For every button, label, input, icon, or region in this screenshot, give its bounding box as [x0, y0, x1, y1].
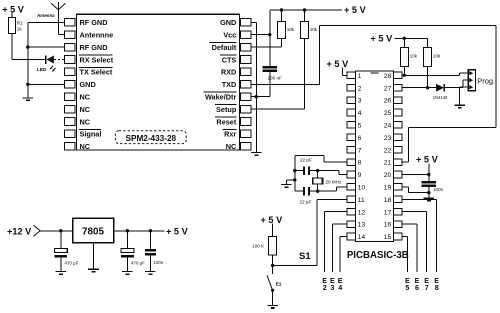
wire C3 leads	[295, 190, 318, 192]
module pin box right 8 (Setup)	[241, 105, 251, 113]
wire crystal vertical	[317, 171, 319, 192]
node E3	[330, 276, 335, 292]
module pin box left 4 (RX Select)	[65, 56, 75, 64]
regulator U3 7805	[73, 218, 114, 243]
svg-text:22: 22	[384, 147, 392, 154]
svg-text:7805: 7805	[82, 226, 104, 237]
U1 pin box right 25	[393, 109, 402, 116]
wire gnd node down	[428, 193, 430, 198]
wire RF GND pin1 to gnd bus	[28, 21, 65, 23]
U1 pin box right 22	[393, 146, 402, 153]
node E4	[338, 276, 343, 292]
svg-text:100 K: 100 K	[252, 244, 265, 249]
pin label Rxr	[223, 129, 237, 138]
wire R5 to S1 node	[272, 255, 274, 265]
wire +5V rail (module)	[270, 9, 342, 11]
wire C2 leads	[295, 170, 318, 172]
svg-text:CTS: CTS	[222, 55, 237, 64]
wire +5V to R5	[272, 224, 274, 237]
svg-text:22 pF: 22 pF	[300, 200, 312, 205]
svg-text:+ 5 V: + 5 V	[344, 5, 367, 15]
svg-text:7: 7	[358, 147, 362, 154]
wire gnd bus to PIC pin 8	[295, 155, 347, 162]
wire PIC pin 13 to E3	[332, 224, 346, 272]
wire rail to C7	[149, 231, 151, 249]
svg-text:10k: 10k	[410, 54, 418, 59]
pin label TX Select	[79, 67, 113, 76]
wire prog pin 3 to ground	[460, 87, 469, 105]
ground (C6)	[122, 272, 133, 275]
wire pin 28 to prog pin 1	[402, 73, 468, 75]
wire RF GND pin3 to gnd bus	[28, 46, 65, 48]
module U2 SPM2-433-28 body	[76, 14, 239, 150]
resistor R7 10k	[424, 47, 432, 66]
wire antenna to Antennne pin	[58, 34, 64, 36]
pin label NC	[80, 142, 91, 151]
svg-text:5: 5	[358, 123, 362, 130]
node E5	[405, 276, 410, 292]
svg-text:1k: 1k	[17, 27, 23, 32]
wire C7 to ground	[149, 256, 151, 272]
svg-text:1: 1	[358, 73, 362, 80]
wire cap bottom to gnd line	[251, 72, 270, 97]
U1 pin box right 17	[393, 208, 402, 215]
wire Vdd to C4	[428, 175, 430, 182]
capacitor C6 470uF electrolytic	[121, 249, 134, 258]
pin label Reset	[215, 117, 237, 126]
wire diode to prog pin 2	[444, 80, 468, 88]
svg-text:17: 17	[384, 209, 392, 216]
pin label RXD	[221, 68, 236, 77]
ground (S1)	[267, 306, 278, 309]
svg-text:28: 28	[384, 73, 392, 80]
U1 pin box left 14	[347, 233, 356, 240]
svg-text:NC: NC	[80, 142, 91, 151]
IC U1 PICBASIC-3B body	[356, 71, 394, 242]
wire R6 to pin 28 net	[403, 66, 405, 75]
junction C3 right / crystal	[316, 190, 319, 193]
resistor R2	[9, 18, 16, 34]
svg-text:+12 V: +12 V	[7, 227, 32, 237]
module pin box left 2 (Antennne)	[65, 31, 75, 39]
junction pin 27 net	[426, 86, 429, 89]
module pin box left 11 (NC)	[65, 143, 75, 151]
resistor R3 10k	[278, 22, 286, 39]
svg-text:10: 10	[358, 185, 366, 192]
svg-text:+ 5 V: + 5 V	[371, 34, 394, 44]
LED	[45, 55, 56, 71]
svg-text:16: 16	[384, 222, 392, 229]
module pin box left 8 (NC)	[65, 105, 75, 113]
node E2	[322, 276, 327, 292]
svg-text:7: 7	[425, 283, 429, 292]
module pin box right 1 (GND)	[241, 19, 251, 27]
svg-text:E1: E1	[276, 281, 282, 287]
pin label GND	[80, 80, 96, 89]
svg-text:LED: LED	[37, 67, 47, 73]
U1 pin box left 7	[347, 146, 356, 153]
junction rail R3	[280, 8, 283, 11]
connector pin contacts	[469, 71, 473, 89]
svg-text:6: 6	[358, 135, 362, 142]
svg-text:11: 11	[358, 197, 365, 204]
connector J1 Prog body	[468, 70, 475, 91]
pin label Wake/Dtr	[204, 92, 237, 101]
module pin box left 6 (GND)	[65, 81, 75, 89]
pin label RF GND	[80, 18, 108, 27]
module pin box right 3 (Default)	[241, 43, 251, 51]
svg-text:5: 5	[405, 283, 409, 292]
wire +5V rail drop / cap top lead	[269, 10, 271, 66]
ground (RF section)	[23, 98, 34, 101]
ground (prog)	[454, 105, 465, 108]
module pin box right 10 (Rxr)	[241, 130, 251, 138]
svg-text:NC: NC	[80, 117, 91, 126]
resistor R4 10k	[301, 22, 309, 39]
module pin box right 11 (NC)	[241, 143, 251, 151]
pin label Signal	[79, 129, 101, 138]
pin label GND	[220, 18, 236, 27]
wire R4 to Setup pin	[251, 39, 305, 110]
module pin box right 2 (Vcc)	[241, 31, 251, 39]
svg-text:10k: 10k	[310, 27, 318, 32]
wire +12V to 7805	[40, 230, 72, 232]
svg-text:20: 20	[384, 172, 392, 179]
module pin box left 10 (Signal)	[65, 130, 75, 138]
wire crystal gnd bus	[294, 155, 296, 191]
svg-text:19: 19	[384, 185, 392, 192]
ground (C7)	[145, 272, 156, 275]
U1 pin box right 27	[393, 84, 402, 91]
junction Vcc	[268, 33, 271, 36]
svg-text:26: 26	[384, 98, 392, 105]
U1 pin box left 2	[347, 84, 356, 91]
svg-text:10k: 10k	[287, 27, 295, 32]
wire GND pin to gnd line	[251, 21, 256, 23]
junction Vdd	[427, 173, 430, 176]
svg-text:Signal: Signal	[80, 130, 102, 139]
ground (PIC Vss)	[424, 198, 435, 201]
pin label NC	[226, 142, 237, 151]
svg-text:GND: GND	[220, 18, 236, 27]
svg-text:8: 8	[435, 283, 439, 292]
svg-text:Wake/Dtr: Wake/Dtr	[205, 93, 237, 102]
wire C4 to gnd node	[428, 187, 430, 193]
wire rail to C6	[126, 231, 128, 249]
capacitor C4 100n	[422, 181, 436, 187]
module pin box left 9 (NC)	[65, 118, 75, 126]
pin label CTS	[220, 55, 237, 64]
wire gnd line vertical	[255, 22, 257, 152]
module pin box right 7 (Wake/Dtr)	[241, 93, 251, 101]
svg-text:TXD: TXD	[222, 80, 237, 89]
junction rail R4	[303, 8, 306, 11]
wire 7805 gnd pin	[93, 242, 95, 269]
ground (7805)	[88, 269, 99, 272]
svg-text:RX Select: RX Select	[80, 55, 114, 64]
svg-text:Antennne: Antennne	[80, 31, 114, 40]
module pin box right 4 (CTS)	[241, 56, 251, 64]
node E7	[424, 276, 429, 292]
wire crystal to PIC pin 9	[318, 171, 347, 175]
wire 7805 output rail	[114, 230, 164, 232]
svg-text:NC: NC	[226, 142, 237, 151]
resistor R5 100K	[269, 236, 277, 255]
wire +5V rail (prog)	[395, 37, 428, 39]
U1 pin box right 23	[393, 134, 402, 141]
wire TXD loop to PIC pin 21	[251, 26, 496, 163]
pin label Default	[210, 43, 237, 52]
junction gnd node	[427, 191, 430, 194]
wire S1 node to PIC pin 11	[273, 199, 347, 265]
svg-text:15: 15	[384, 234, 392, 241]
svg-text:21: 21	[384, 160, 392, 167]
svg-text:1N4148: 1N4148	[433, 95, 448, 100]
wire PIC pin 18 to E8	[402, 199, 437, 271]
capacitor C5 470uF electrolytic	[54, 249, 67, 258]
svg-text:2: 2	[358, 85, 362, 92]
svg-text:20 MHz: 20 MHz	[326, 179, 343, 184]
svg-text:9: 9	[358, 172, 362, 179]
junction C2 left	[293, 169, 296, 172]
node E6	[415, 276, 420, 292]
svg-text:3: 3	[358, 98, 362, 105]
wire R2 to LED node	[12, 34, 45, 60]
svg-text:RF GND: RF GND	[80, 18, 108, 27]
svg-text:S1: S1	[299, 251, 311, 262]
capacitor C3 22pF bottom	[303, 187, 310, 196]
svg-text:+ 5 V: + 5 V	[2, 4, 25, 14]
svg-text:27: 27	[384, 85, 392, 92]
svg-text:100n: 100n	[153, 260, 163, 265]
wire R7 to pin 27 net	[427, 66, 429, 87]
pin label Vcc	[223, 31, 236, 40]
svg-text:24: 24	[384, 123, 392, 130]
U1 pin box left 8	[347, 159, 356, 166]
wire PIC pin 14 to E4	[340, 237, 347, 272]
pin label Antennne	[80, 31, 114, 40]
svg-text:SPM2-433-28: SPM2-433-28	[126, 134, 177, 143]
wire pin 19 to gnd node	[402, 187, 429, 193]
U1 pin box left 3	[347, 97, 356, 104]
U1 pin box right 15	[393, 233, 402, 240]
svg-text:3: 3	[330, 283, 334, 292]
value label R2 1k	[17, 21, 23, 32]
svg-text:RF GND: RF GND	[80, 43, 108, 52]
capacitor C1 100nF	[263, 66, 277, 72]
svg-text:13: 13	[358, 222, 366, 229]
capacitor C7 100n	[145, 249, 156, 256]
U1 pin box left 5	[347, 122, 356, 129]
svg-text:18: 18	[384, 197, 392, 204]
U1 pin box left 11	[347, 196, 356, 203]
svg-text:6: 6	[415, 283, 419, 292]
module pin box right 5 (RXD)	[241, 68, 251, 76]
wire PIC pin 12 to E2	[325, 212, 347, 272]
svg-text:PICBASIC-3B: PICBASIC-3B	[347, 250, 409, 261]
wire crystal to PIC pin 10	[318, 187, 347, 191]
junction cap/gnd	[255, 95, 258, 98]
svg-text:470 µF: 470 µF	[131, 260, 145, 265]
wire rail to R6	[403, 38, 405, 47]
crystal X1 20MHz	[312, 178, 322, 184]
pin label RX Select	[79, 55, 114, 64]
svg-text:10k: 10k	[433, 54, 441, 59]
svg-text:2: 2	[323, 283, 327, 292]
U1 pin box left 1	[347, 72, 356, 79]
junction GND	[26, 83, 29, 86]
ground (crystal)	[281, 185, 292, 188]
pin label NC	[80, 117, 91, 126]
svg-text:Rxr: Rxr	[224, 130, 236, 139]
wire pin 20 to +5V	[402, 163, 429, 174]
module pin box left 7 (NC)	[65, 93, 75, 101]
svg-text:RXD: RXD	[221, 68, 236, 77]
U1 pin box right 18	[393, 196, 402, 203]
pin label NC	[80, 93, 91, 102]
svg-text:4: 4	[358, 110, 362, 117]
wire Vcc pin to +5V drop	[251, 34, 270, 36]
junction C6	[126, 229, 129, 232]
U1 pin box right 19	[393, 184, 402, 191]
wire C5 to ground	[60, 258, 62, 272]
wire S1 to ground	[272, 290, 274, 305]
switch S1	[267, 265, 274, 292]
svg-text:4: 4	[338, 283, 342, 292]
svg-text:Vcc: Vcc	[223, 31, 236, 40]
module pin box right 9 (Reset)	[241, 118, 251, 126]
U1 pin box left 13	[347, 221, 356, 228]
junction C2 right / crystal	[316, 169, 319, 172]
svg-text:8: 8	[358, 160, 362, 167]
junction C7	[149, 229, 152, 232]
svg-text:GND: GND	[80, 80, 96, 89]
svg-text:23: 23	[384, 135, 392, 142]
svg-text:Reset: Reset	[216, 117, 236, 126]
wire rail to C5	[60, 231, 62, 249]
U1 pin box right 20	[393, 171, 402, 178]
U1 pin box left 12	[347, 208, 356, 215]
module pin box right 6 (TXD)	[241, 81, 251, 89]
U1 pin box left 4	[347, 109, 356, 116]
wire rail to R4	[304, 10, 306, 22]
U1 pin box right 26	[393, 97, 402, 104]
svg-text:Prog.: Prog.	[477, 77, 495, 86]
wire GND pin6 to gnd bus	[28, 83, 65, 85]
wire +5V to pin 1	[343, 68, 347, 76]
svg-text:NC: NC	[80, 105, 91, 114]
svg-text:25: 25	[384, 110, 392, 117]
module pin box left 3 (RF GND)	[65, 43, 75, 51]
ground (module GND)	[251, 153, 262, 156]
junction RF GND	[26, 45, 29, 48]
capacitor C2 22pF top	[303, 166, 310, 175]
svg-text:12: 12	[358, 209, 366, 216]
wire PIC pin 15 to E5	[402, 237, 407, 272]
antenna	[51, 2, 65, 35]
svg-text:+ 5 V: + 5 V	[166, 227, 189, 237]
junction S1 node	[271, 264, 274, 267]
wire gnd bus vertical	[27, 22, 29, 97]
U1 pin box right 28	[393, 72, 402, 79]
U1 pin box left 6	[347, 134, 356, 141]
pin label TXD	[222, 80, 237, 89]
diode D1 1N4148	[436, 84, 444, 92]
junction rail R6	[403, 37, 406, 40]
U1 pin box right 21	[393, 159, 402, 166]
resistor R6 10k	[400, 47, 408, 66]
wire gnd stub	[286, 180, 295, 184]
wire +5V to R2	[11, 13, 13, 18]
svg-text:+ 5 V: + 5 V	[261, 215, 284, 225]
svg-text:14: 14	[358, 234, 366, 241]
svg-text:470 µF: 470 µF	[65, 260, 79, 265]
junction pin 28 net	[403, 74, 406, 77]
pin label Setup	[215, 105, 237, 114]
svg-text:22 pF: 22 pF	[300, 158, 312, 163]
U1 pin box left 9	[347, 171, 356, 178]
pin label RF GND	[80, 43, 108, 52]
svg-text:Setup: Setup	[216, 105, 237, 114]
wire PIC pin 17 to E7	[402, 212, 427, 272]
wire rail to R7	[427, 38, 429, 47]
svg-text:+ 5 V: + 5 V	[327, 59, 350, 69]
node E8	[434, 276, 439, 292]
orientation notch	[370, 72, 378, 74]
svg-text:NC: NC	[80, 93, 91, 102]
input terminal chevron	[34, 225, 41, 236]
svg-text:TX Select: TX Select	[80, 68, 113, 77]
wire R3 to Default pin	[251, 39, 282, 48]
wire PIC pin 16 to E6	[402, 224, 417, 272]
label SPM2-433-28 (dashed box)	[115, 131, 186, 144]
module pin box left 5 (TX Select)	[65, 68, 75, 76]
junction gnd stub	[293, 178, 296, 181]
wire C6 to ground	[126, 258, 128, 272]
wire rail to R3	[281, 10, 283, 22]
wire (dashed) LED to RX Select pin	[54, 59, 65, 61]
pin label NC	[80, 105, 91, 114]
svg-text:Antenna: Antenna	[36, 13, 55, 18]
ground (C5)	[56, 272, 67, 275]
svg-text:+ 5 V: + 5 V	[416, 155, 439, 165]
module pin box left 1 (RF GND)	[65, 19, 75, 27]
wire pin 27 to diode	[402, 87, 436, 89]
U1 pin box left 10	[347, 184, 356, 191]
junction C5	[59, 229, 62, 232]
U1 pin box right 16	[393, 221, 402, 228]
U1 pin box right 24	[393, 122, 402, 129]
svg-text:Default: Default	[212, 43, 237, 52]
svg-text:100n: 100n	[433, 187, 444, 192]
svg-text:R2: R2	[17, 21, 23, 26]
